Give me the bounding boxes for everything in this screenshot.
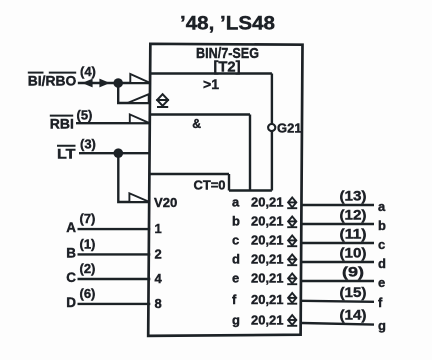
OR element top edge <box>150 72 272 74</box>
row e : wire <box>302 280 374 282</box>
polarity triangle V20 <box>129 193 149 202</box>
svg-text:C: C <box>66 270 76 285</box>
svg-text:LT: LT <box>57 145 76 161</box>
wire A <box>78 228 151 230</box>
step vertical <box>228 174 230 191</box>
overline RBO <box>49 72 76 74</box>
svg-text:20,21: 20,21 <box>251 214 284 229</box>
wire LT branch to V20 <box>118 153 150 202</box>
svg-text:>1: >1 <box>203 76 219 92</box>
svg-text:A: A <box>66 220 76 235</box>
svg-text:G21: G21 <box>277 121 302 136</box>
row d : pull-up diamond <box>287 255 297 266</box>
svg-text:CT=0: CT=0 <box>194 177 226 192</box>
wire BI/RBO <box>78 82 151 84</box>
svg-text:4: 4 <box>155 271 163 286</box>
svg-text:(14): (14) <box>340 307 367 323</box>
svg-text:2: 2 <box>155 246 162 261</box>
OR/AND divider line <box>150 113 250 115</box>
output RBO diamond (passive pull-up symbol) <box>156 94 169 107</box>
svg-text:b: b <box>378 218 386 233</box>
svg-text:20,21: 20,21 <box>251 312 284 327</box>
row g : pull-up diamond <box>287 315 297 326</box>
svg-text:(10): (10) <box>340 245 367 261</box>
polarity triangle RBO output <box>128 94 149 103</box>
arrow left (bidirectional) <box>82 79 93 88</box>
row b : wire <box>302 223 374 225</box>
polarity triangle BI input <box>130 74 150 83</box>
svg-text:(5): (5) <box>77 108 93 123</box>
wire B <box>78 253 151 255</box>
row e : pull-up diamond <box>287 274 297 285</box>
overline RBI <box>50 115 73 117</box>
row c : pull-up diamond <box>287 236 297 247</box>
wire RBO branch <box>118 83 150 103</box>
step bottom line <box>229 189 272 191</box>
svg-text:20,21: 20,21 <box>251 233 284 248</box>
svg-text:20,21: 20,21 <box>251 252 284 267</box>
svg-text:(7): (7) <box>80 211 96 226</box>
svg-text:(1): (1) <box>80 236 96 251</box>
AND element right edge <box>249 115 251 191</box>
row c : wire <box>302 242 374 244</box>
svg-text:g: g <box>378 318 386 333</box>
row a : wire <box>302 204 374 206</box>
row f : pull-up diamond <box>287 293 297 304</box>
svg-text:d: d <box>378 256 386 271</box>
svg-text:d: d <box>232 252 240 267</box>
row a : pull-up diamond <box>287 198 297 209</box>
row g : wire <box>302 323 374 325</box>
svg-text:b: b <box>232 214 240 229</box>
overline LT <box>57 145 76 147</box>
svg-text:’48, ’LS48: ’48, ’LS48 <box>180 14 275 35</box>
svg-text:(11): (11) <box>340 226 367 242</box>
svg-text:(13): (13) <box>340 188 367 204</box>
svg-text:&: & <box>192 117 201 131</box>
svg-text:D: D <box>66 295 76 310</box>
svg-text:(12): (12) <box>340 207 367 223</box>
junction dot LT <box>114 148 124 158</box>
wire RBI <box>76 122 150 124</box>
svg-text:20,21: 20,21 <box>251 271 284 286</box>
svg-text:a: a <box>232 195 240 210</box>
overline BI <box>28 72 44 74</box>
svg-text:e: e <box>232 271 239 286</box>
svg-text:(15): (15) <box>340 284 367 300</box>
wire G21 vertical <box>271 74 273 191</box>
svg-text:V20: V20 <box>154 195 177 210</box>
AND element bottom edge <box>150 173 229 175</box>
output rows a-g <box>232 188 386 334</box>
wire D <box>78 303 151 305</box>
svg-text:(4): (4) <box>80 64 96 79</box>
svg-text:a: a <box>378 199 386 214</box>
svg-text:20,21: 20,21 <box>251 292 284 307</box>
outer box U1 <box>148 44 302 336</box>
svg-text:f: f <box>378 295 383 310</box>
svg-text:BI/RBO: BI/RBO <box>28 73 77 89</box>
node G21 circle <box>268 124 275 131</box>
wire LT <box>79 152 150 154</box>
svg-text:(6): (6) <box>80 286 96 301</box>
arrow right (bidirectional) <box>99 79 110 88</box>
svg-text:RBI: RBI <box>50 115 74 131</box>
svg-text:20,21: 20,21 <box>251 195 284 210</box>
svg-text:g: g <box>232 312 240 327</box>
wire C <box>78 278 151 280</box>
svg-text:1: 1 <box>155 221 162 236</box>
svg-text:8: 8 <box>155 296 162 311</box>
svg-text:(9): (9) <box>342 264 364 280</box>
row f : wire <box>302 301 374 302</box>
row d : wire <box>302 261 374 263</box>
junction dot BI/RBO <box>113 78 123 88</box>
svg-text:(3): (3) <box>80 136 96 151</box>
svg-text:c: c <box>232 233 239 248</box>
svg-text:(2): (2) <box>80 261 96 276</box>
polarity triangle RBI <box>130 114 150 123</box>
svg-text:e: e <box>378 275 385 290</box>
svg-text:B: B <box>66 246 76 261</box>
svg-text:f: f <box>232 292 237 307</box>
svg-text:c: c <box>378 237 385 252</box>
row b : pull-up diamond <box>287 217 297 228</box>
